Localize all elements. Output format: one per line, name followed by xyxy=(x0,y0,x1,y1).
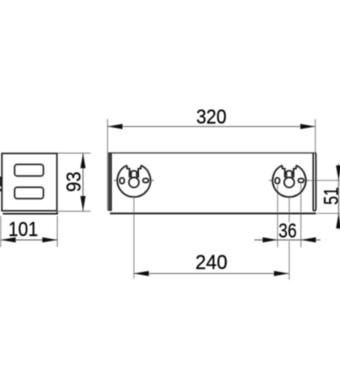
320 arrow left xyxy=(108,124,123,129)
left wall tab upper xyxy=(0,177,2,187)
front view top edge xyxy=(108,152,316,154)
51 arrow up at bottom ext xyxy=(336,213,340,228)
keyhole left (lampholder) xyxy=(114,165,154,197)
240 arrow left xyxy=(134,271,149,276)
svg-text:240: 240 xyxy=(195,251,227,274)
36 ext line left (from left pin oval) xyxy=(277,185,279,248)
svg-text:101: 101 xyxy=(8,218,38,241)
svg-text:320: 320 xyxy=(196,106,226,129)
240 dim line xyxy=(134,273,289,275)
front view left cap inner xyxy=(110,153,112,211)
front view left cap outer xyxy=(108,153,110,211)
51 dim line xyxy=(338,164,340,230)
320 dim line xyxy=(108,126,316,128)
right keyhole centerline lower xyxy=(288,241,290,280)
101 ext line right xyxy=(56,216,58,247)
93 arrow up xyxy=(80,153,85,168)
svg-text:51: 51 xyxy=(320,187,340,205)
51 ext line top (from keyhole center) xyxy=(310,179,340,181)
36 arrow pointing right at left ext xyxy=(263,237,278,242)
bottom slot xyxy=(15,187,44,198)
93 dim line xyxy=(82,153,84,211)
front view right cap outer xyxy=(313,153,316,211)
side view bottom lip xyxy=(3,212,58,214)
240 arrow right xyxy=(274,271,289,276)
right keyhole centerline upper xyxy=(288,197,290,222)
320 ext line left xyxy=(107,119,109,211)
36 ext line right (from right pin oval) xyxy=(300,184,302,248)
101 dim line xyxy=(1,239,58,241)
101 ext line left xyxy=(0,216,2,247)
51 ext line bottom (from fixture bottom) xyxy=(317,212,340,214)
svg-text:36: 36 xyxy=(279,220,297,243)
top slot xyxy=(15,164,44,176)
keyhole right (lampholder) xyxy=(269,165,309,197)
36 dim line xyxy=(254,239,320,241)
320 ext line right xyxy=(314,119,316,153)
left keyhole centerline xyxy=(133,197,135,278)
101 arrow left xyxy=(1,237,16,242)
side view body xyxy=(2,153,57,210)
101 arrow right xyxy=(42,237,57,242)
left wall tab lower xyxy=(0,189,2,192)
93 arrow down xyxy=(80,196,85,211)
93 ext line bottom xyxy=(58,210,91,212)
front view right cap inner xyxy=(312,153,314,211)
front view bottom edge xyxy=(110,212,316,214)
36 arrow pointing left at right ext xyxy=(301,237,316,242)
93 ext line top xyxy=(58,152,91,154)
svg-text:93: 93 xyxy=(62,172,85,192)
320 arrow right xyxy=(300,124,315,129)
51 arrow down at top ext xyxy=(336,165,340,180)
